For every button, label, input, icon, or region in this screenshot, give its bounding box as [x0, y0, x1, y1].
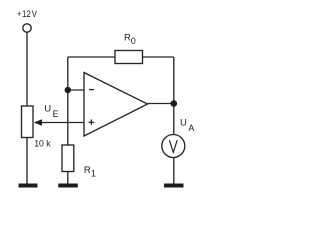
svg-text:R: R	[84, 165, 91, 176]
svg-text:1: 1	[91, 168, 96, 178]
svg-text:12: 12	[22, 8, 31, 19]
svg-text:10 k: 10 k	[34, 138, 51, 148]
svg-text:E: E	[53, 109, 59, 119]
svg-text:V: V	[32, 8, 37, 19]
svg-text:0: 0	[131, 36, 136, 46]
svg-text:U: U	[180, 118, 187, 129]
svg-text:A: A	[188, 123, 194, 133]
svg-text:U: U	[44, 104, 51, 115]
svg-text:+: +	[17, 8, 22, 19]
